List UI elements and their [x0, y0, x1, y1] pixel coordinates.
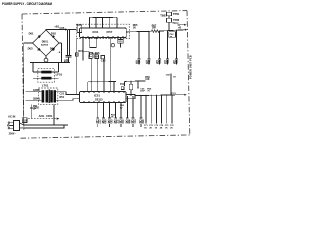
svg-text:R63: R63: [108, 121, 113, 125]
svg-text:POWER SUPPLY - CIRCUIT DIAGRAM: POWER SUPPLY - CIRCUIT DIAGRAM: [2, 1, 52, 6]
svg-text:4A/600: 4A/600: [41, 43, 49, 46]
svg-text:TB01: TB01: [160, 13, 167, 17]
IC51 bottom ladder: [98, 103, 121, 118]
svg-text:X01: X01: [118, 41, 123, 44]
thermistor TH01 (circle below bridge): [45, 56, 47, 58]
svg-text:6707: 6707: [107, 30, 113, 34]
diode D03 (bottom-left edge): [37, 48, 40, 51]
svg-text:D02: D02: [51, 31, 56, 35]
svg-text:R68: R68: [139, 121, 144, 125]
lower bus drops: [127, 96, 141, 118]
svg-text:POWER UNIT PCB: POWER UNIT PCB: [189, 55, 192, 79]
transformer winding bars: [42, 90, 45, 102]
lower ladder labels row 2: [144, 124, 175, 129]
svg-text:LF01: LF01: [56, 72, 63, 76]
choke left stubs: [33, 62, 41, 78]
svg-text:1K: 1K: [133, 26, 136, 29]
transformer secondary wires to IC51: [56, 92, 80, 95]
capacitor C07 box: [90, 53, 93, 57]
ladder labels: [136, 59, 179, 65]
svg-text:R61: R61: [96, 121, 101, 125]
svg-text:10K: 10K: [145, 79, 150, 81]
R15 column: [76, 39, 78, 95]
svg-text:C13: C13: [101, 59, 106, 63]
svg-text:IC51: IC51: [94, 94, 100, 98]
upper bus: [89, 16, 117, 18]
svg-text:→ B: → B: [56, 52, 61, 54]
diode D01 (top-left edge): [38, 35, 41, 38]
choke LF01 winding bar 1: [41, 71, 51, 74]
capacitor C02 column: [31, 105, 33, 119]
wire IC01 to right bus: [126, 30, 151, 33]
svg-text:C05: C05: [60, 26, 65, 30]
choke LF01 winding bar 2: [41, 77, 51, 80]
node +B wire from bridge top: [46, 29, 70, 32]
lower ladder labels row 1: [96, 119, 145, 125]
ladder component caps: [137, 59, 178, 65]
wire bridge right corner to right: [59, 42, 62, 44]
svg-text:ACIL CF01: ACIL CF01: [39, 114, 53, 118]
lower bus: [135, 94, 175, 97]
IC51 box: [80, 92, 127, 103]
dashed pointer line: [28, 118, 57, 120]
svg-text:F51: F51: [120, 83, 125, 86]
transformer core lines: [48, 90, 51, 104]
upper-right terminal block TB01: [167, 12, 172, 15]
svg-text:IC01: IC01: [93, 30, 99, 34]
svg-text:SE115: SE115: [95, 98, 103, 102]
border (dash-dot chassis outline): [21, 11, 192, 139]
diode D02 (top-right edge): [52, 35, 55, 38]
svg-text:AC IN: AC IN: [8, 114, 15, 118]
verticals into IC51: [91, 82, 114, 92]
svg-text:TP81: TP81: [173, 12, 180, 16]
component row under IC01: [89, 55, 92, 59]
svg-text:201P: 201P: [140, 91, 145, 93]
wire bridge left corner to left rail: [24, 42, 33, 44]
bus junction dots: [138, 31, 139, 32]
svg-text:50V: 50V: [156, 61, 161, 65]
wire right AC drop: [61, 43, 63, 62]
C58 wire right: [170, 74, 172, 96]
svg-text:16V: 16V: [164, 61, 169, 65]
svg-text:R67: R67: [131, 121, 136, 125]
left rail (vertical wire): [23, 43, 25, 125]
svg-text:1K: 1K: [173, 77, 176, 79]
svg-text:R66: R66: [126, 121, 131, 125]
svg-text:C12: C12: [89, 51, 94, 55]
svg-text:50V: 50V: [136, 61, 141, 65]
IC01 box: [80, 28, 127, 38]
IC51 pin ticks: [84, 101, 124, 103]
svg-text:TO H: TO H: [172, 21, 178, 25]
svg-text:R51: R51: [60, 95, 65, 99]
fuse F01 box: [22, 118, 27, 123]
svg-text:F01: F01: [23, 119, 28, 122]
svg-text:C51: C51: [60, 91, 65, 95]
svg-text:C02: C02: [34, 105, 39, 109]
circle symbol under IC01: [111, 44, 114, 47]
stub on segment B: [137, 81, 139, 88]
capacitor C06 plates: [65, 55, 71, 57]
stubs below row1 labels: [98, 124, 141, 127]
svg-text:50V: 50V: [173, 61, 178, 65]
capacitor C06 columns: [68, 30, 70, 56]
transformer primary wires: [26, 92, 42, 101]
svg-text:400V: 400V: [64, 60, 70, 63]
IC01 pin ticks: [83, 36, 123, 38]
svg-text:R16: R16: [95, 51, 100, 55]
arrow on +B wire: [65, 28, 68, 30]
svg-text:R65: R65: [119, 121, 124, 125]
small box P02 below right bus: [169, 32, 176, 38]
lower ladder component caps row 1: [97, 118, 143, 119]
diode D04 (bottom-right edge): [52, 48, 55, 51]
svg-text:2W: 2W: [152, 27, 156, 30]
AC line wire 2: [24, 125, 64, 128]
svg-text:R62: R62: [102, 121, 107, 125]
mid bus segment B: [125, 80, 146, 83]
svg-text:16V: 16V: [146, 61, 151, 65]
capacitor C07 column with branch: [82, 39, 84, 61]
loop wire under IC01: [90, 38, 97, 47]
IC01 top pins: [90, 17, 117, 28]
upper-right ladder drops: [139, 30, 177, 58]
AC plug: [8, 121, 24, 131]
bridge rectifier D01-D04 diamond: [33, 30, 60, 56]
svg-text:D03: D03: [28, 46, 33, 50]
IC51 right pins: [126, 95, 135, 99]
choke LF01 dashed box: [38, 69, 55, 83]
D52 column: [130, 81, 132, 96]
dashed box around IC01: [76, 24, 129, 38]
choke right stubs: [52, 62, 59, 78]
svg-text:1(RD): 1(RD): [33, 89, 40, 92]
svg-text:R15: R15: [78, 49, 83, 53]
resistor R07 zigzag: [151, 30, 159, 33]
svg-text:2(BK): 2(BK): [33, 98, 40, 101]
AC line wire 1: [24, 105, 68, 125]
ladder verticals to mid bus: [91, 38, 110, 82]
ground bus under bridge: [30, 61, 70, 63]
svg-text:D01: D01: [29, 31, 34, 35]
mid bus segment A: [88, 81, 116, 83]
transformer LT01 dashed box: [38, 88, 57, 105]
svg-text:LT01: LT01: [42, 83, 49, 87]
svg-text:D04: D04: [50, 46, 55, 50]
X01 box under IC01: [119, 38, 121, 48]
wire node to IC01 dashed box: [70, 29, 77, 31]
svg-text:250V~: 250V~: [9, 133, 17, 136]
svg-text:+B: +B: [178, 26, 182, 30]
right bus to border: [159, 30, 186, 31]
svg-text:DB01: DB01: [42, 40, 49, 43]
small box at IC01 left: [77, 25, 82, 33]
